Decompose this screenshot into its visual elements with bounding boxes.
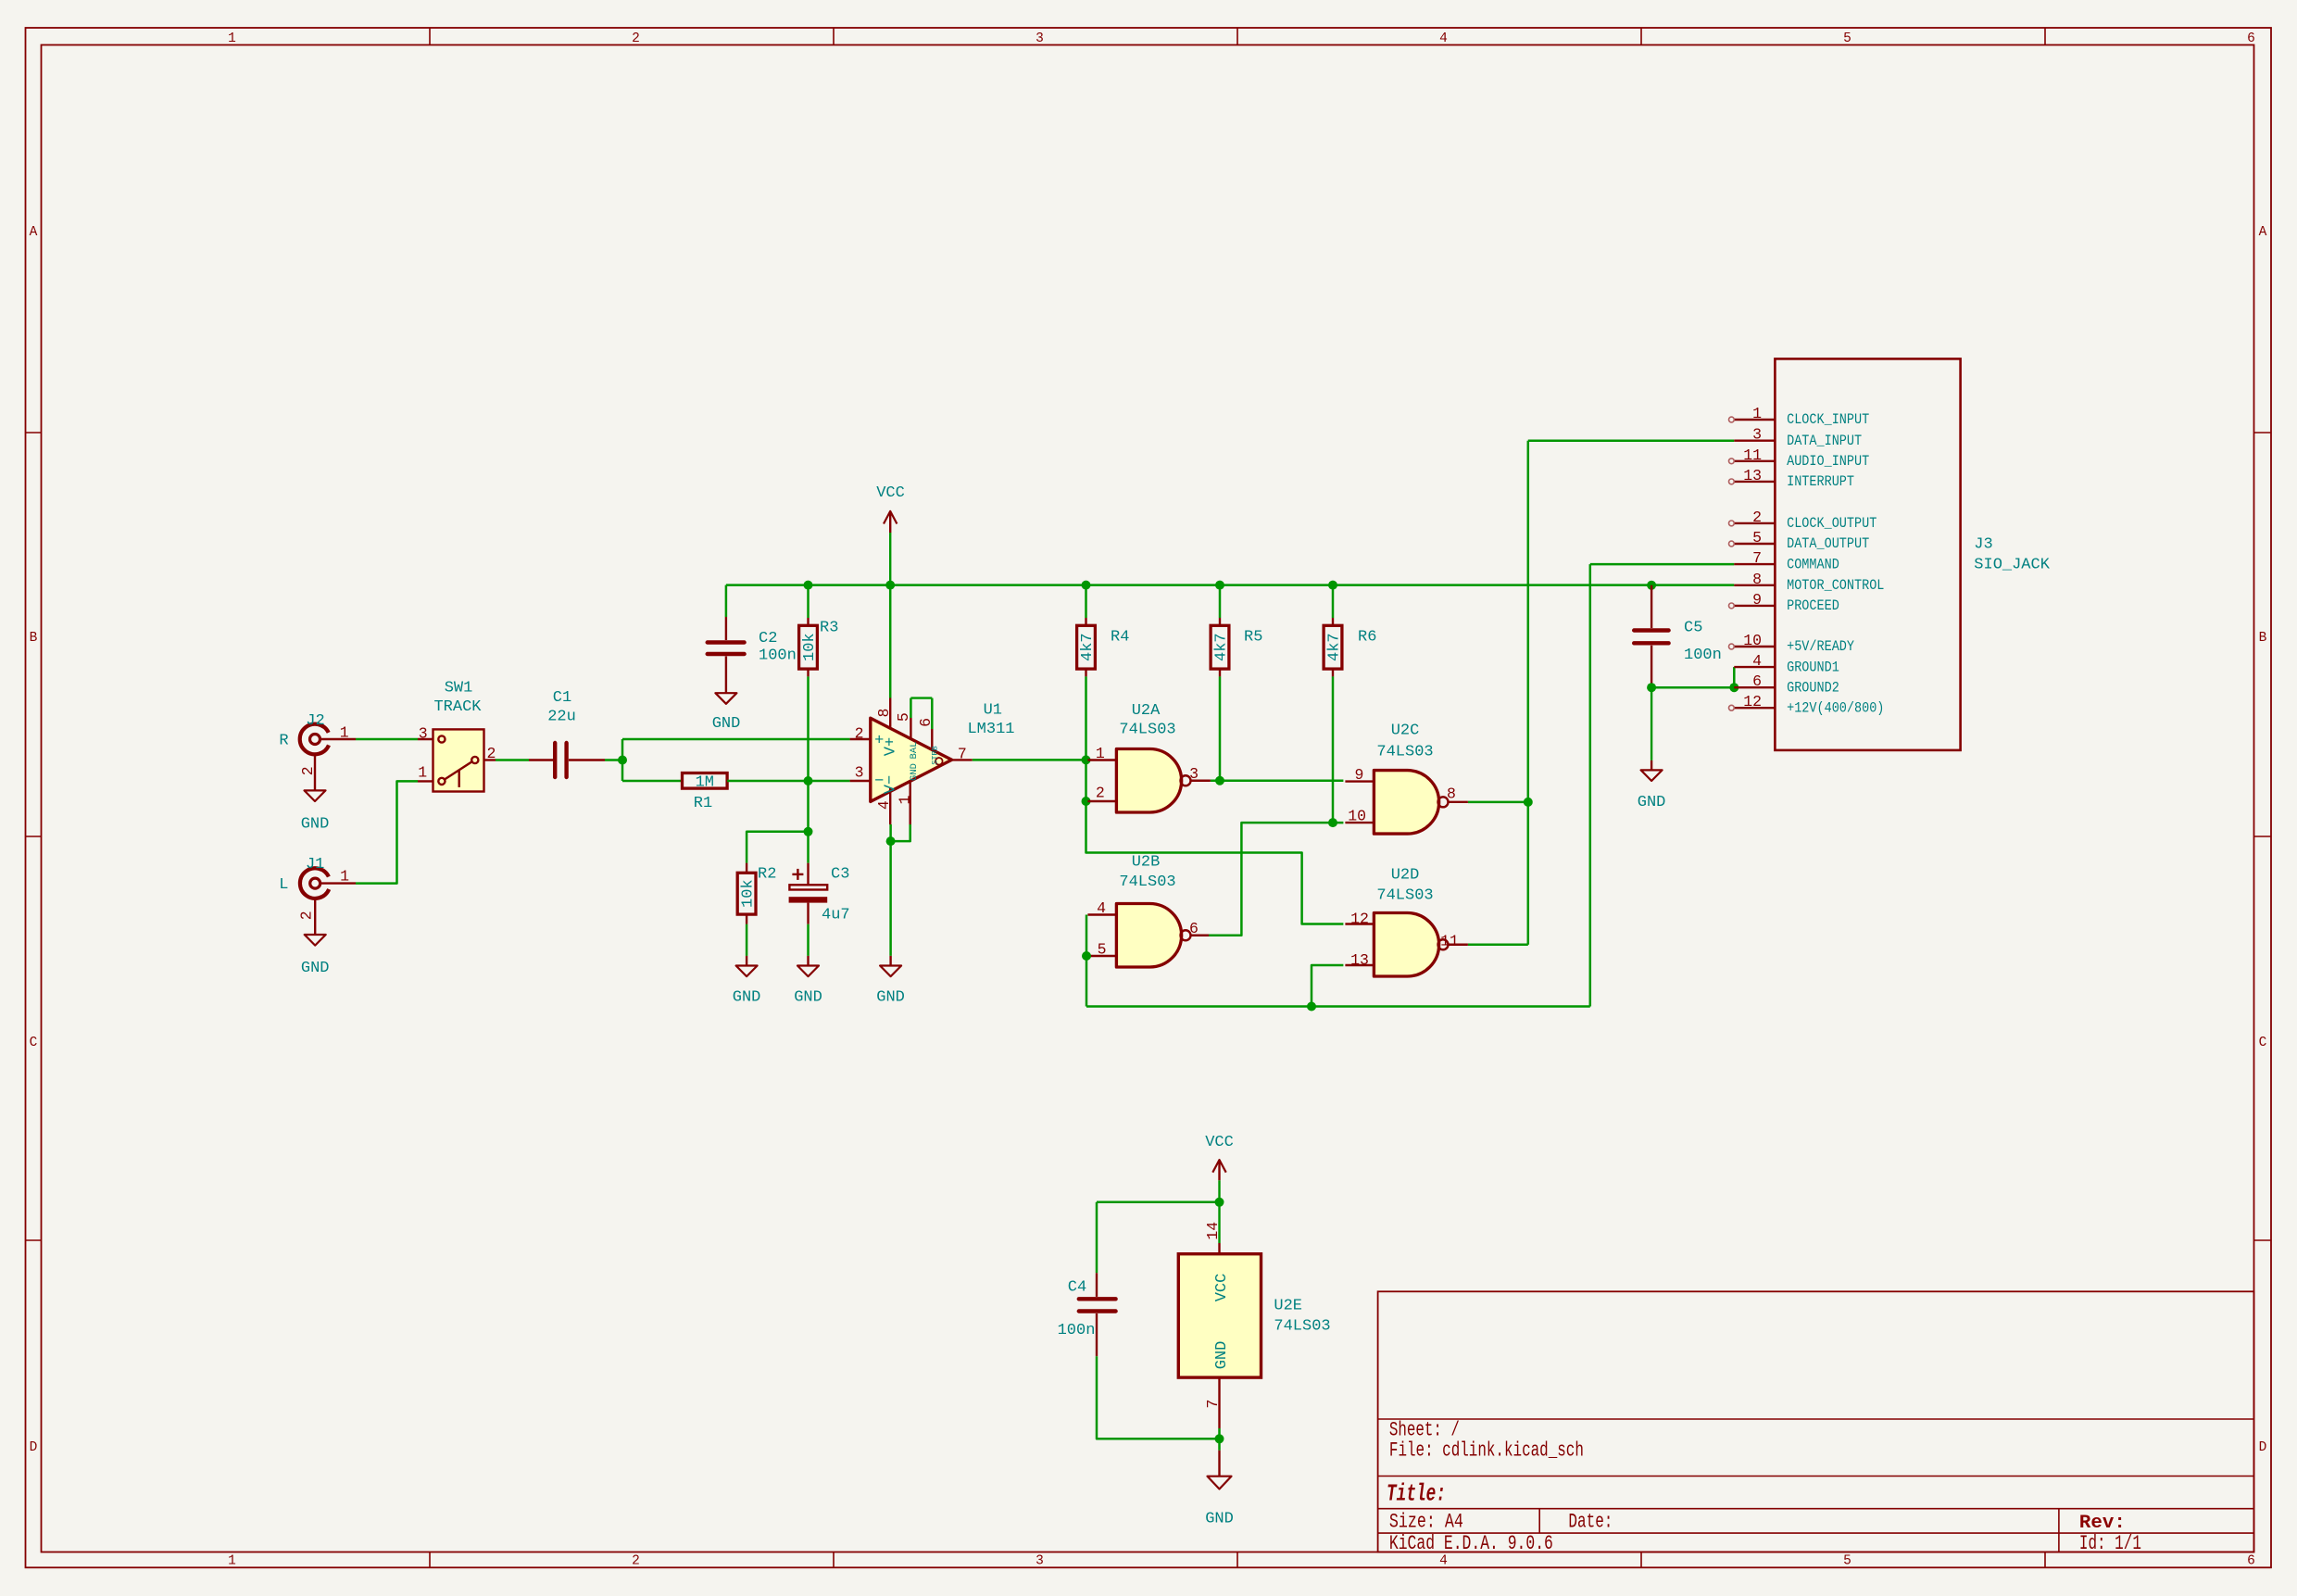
svg-text:6: 6 <box>2247 31 2255 46</box>
title block <box>1378 1291 2254 1555</box>
svg-text:R: R <box>279 733 288 750</box>
svg-text:1: 1 <box>228 31 236 46</box>
switch SW1 TRACK <box>418 680 496 792</box>
svg-text:GND: GND <box>876 989 905 1007</box>
svg-text:13: 13 <box>1743 467 1762 484</box>
wire C1 to node A <box>605 759 622 761</box>
svg-text:5: 5 <box>1098 941 1107 959</box>
svg-text:3: 3 <box>419 725 428 743</box>
svg-text:5: 5 <box>1843 31 1851 46</box>
svg-text:B: B <box>2259 631 2267 646</box>
svg-text:3: 3 <box>1036 31 1044 46</box>
power VCC (top) <box>876 484 905 585</box>
svg-text:PROCEED: PROCEED <box>1787 597 1839 614</box>
wire U2B.6 to U2C.10 <box>1209 823 1343 936</box>
junction VCC/rail <box>885 581 895 590</box>
svg-text:22u: 22u <box>547 709 576 726</box>
wire rail to R5 <box>1219 585 1222 618</box>
wire U2A.2 node to U2D.12 <box>1086 801 1344 924</box>
svg-text:DATA_INPUT: DATA_INPUT <box>1787 433 1862 449</box>
junction node C (U2C.8/U2D.11/DATA_INPUT) <box>1524 798 1533 807</box>
svg-text:R3: R3 <box>820 620 838 637</box>
resistor R3 10k <box>799 618 839 676</box>
svg-text:BAL: BAL <box>909 742 920 760</box>
svg-text:11: 11 <box>1743 446 1762 464</box>
svg-text:L: L <box>279 876 288 894</box>
svg-text:5: 5 <box>1843 1554 1851 1569</box>
capacitor C5 100n <box>1634 585 1722 687</box>
capacitor C4 100n <box>1058 1273 1116 1356</box>
J3 pin 1 CLOCK_INPUT <box>1729 405 1870 428</box>
wire J3 GROUND1 elbow <box>1733 667 1736 687</box>
svg-text:C3: C3 <box>831 866 849 884</box>
svg-text:4k7: 4k7 <box>1326 633 1344 661</box>
connector J1 (RCA jack L) <box>279 856 356 924</box>
J3 pin 10 +5V/READY <box>1729 632 1855 655</box>
svg-text:9: 9 <box>1355 766 1364 784</box>
J3 pin 2 CLOCK_OUTPUT <box>1729 509 1877 532</box>
svg-text:V−: V− <box>882 775 899 794</box>
svg-text:AUDIO_INPUT: AUDIO_INPUT <box>1787 453 1869 470</box>
svg-text:9: 9 <box>1752 591 1762 609</box>
wire node to C3 <box>807 832 810 863</box>
node A junction <box>618 756 627 765</box>
svg-text:8: 8 <box>875 709 893 718</box>
svg-text:Id: 1/1: Id: 1/1 <box>2079 1532 2141 1555</box>
op-amp U1 LM311 <box>850 698 1015 825</box>
junction C5/ground net <box>1647 683 1656 692</box>
junction C5/rail <box>1647 581 1656 590</box>
junction R5/rail <box>1215 581 1224 590</box>
svg-text:1: 1 <box>418 764 427 782</box>
junction R3/pin3 row <box>804 776 813 785</box>
junction J3 GROUND2 <box>1729 683 1738 692</box>
nand gate U2C 74LS03 <box>1345 723 1468 835</box>
junction R6/U2C.10 <box>1328 818 1337 827</box>
svg-text:1: 1 <box>228 1554 236 1569</box>
svg-text:74LS03: 74LS03 <box>1376 887 1433 905</box>
J3 pin 6 GROUND2 <box>1734 672 1839 696</box>
svg-text:100n: 100n <box>1684 647 1722 664</box>
svg-text:1: 1 <box>340 724 349 742</box>
wire C4 top lead <box>1096 1202 1098 1274</box>
wire node A to R1 <box>622 780 684 783</box>
ic U2E 74LS03 power unit <box>1178 1222 1330 1428</box>
power VCC (bottom) <box>1205 1134 1234 1202</box>
J3 pin 7 COMMAND <box>1734 549 1839 572</box>
resistor R2 10k <box>737 863 776 924</box>
svg-text:File: cdlink.kicad_sch: File: cdlink.kicad_sch <box>1389 1439 1584 1463</box>
J3 pin 11 AUDIO_INPUT <box>1729 446 1870 470</box>
J3 pin 4 GROUND1 <box>1734 652 1839 675</box>
svg-text:GND: GND <box>1213 1341 1231 1370</box>
svg-text:R5: R5 <box>1244 629 1262 647</box>
ground (J1) <box>301 924 330 977</box>
junction node B (U1.7/R4/U2A.1) <box>1082 755 1091 764</box>
svg-text:STRB: STRB <box>930 746 939 764</box>
wire node A vertical <box>621 739 624 781</box>
svg-text:74LS03: 74LS03 <box>1119 722 1175 739</box>
wire R1 to U1 pin 3 <box>727 780 850 783</box>
svg-text:Rev:: Rev: <box>2079 1513 2126 1534</box>
J3 pin 8 MOTOR_CONTROL <box>1734 571 1884 594</box>
svg-text:MOTOR_CONTROL: MOTOR_CONTROL <box>1787 577 1884 594</box>
svg-text:GND: GND <box>733 989 761 1007</box>
wire bottom rail (COMMAND net) <box>1086 1005 1590 1008</box>
wire R6 to U2C.10 node <box>1332 676 1335 823</box>
svg-text:CLOCK_INPUT: CLOCK_INPUT <box>1787 411 1869 428</box>
ground (C5) <box>1638 687 1666 811</box>
wire J2.1 to SW1.3 <box>356 738 418 741</box>
svg-text:Title:: Title: <box>1387 1480 1446 1508</box>
svg-text:COMMAND: COMMAND <box>1787 556 1839 572</box>
svg-text:C: C <box>30 1036 38 1050</box>
svg-text:Date:: Date: <box>1568 1511 1613 1534</box>
junction U1 ground node <box>886 836 896 846</box>
svg-text:GND: GND <box>1638 794 1666 811</box>
svg-text:10k: 10k <box>801 633 819 661</box>
svg-text:J3: J3 <box>1974 536 1992 554</box>
svg-text:3: 3 <box>1189 765 1199 783</box>
wire SW1.2 to C1 <box>496 759 529 761</box>
svg-text:B: B <box>30 631 38 646</box>
wire C4 bottom lead <box>1097 1356 1220 1439</box>
wire node to ground <box>1218 1439 1221 1450</box>
J3 pin 12 +12V(400/800) <box>1729 693 1885 716</box>
wire C3 to ground <box>807 924 810 956</box>
junction U2D.13/bottom rail <box>1307 1002 1316 1012</box>
svg-text:4: 4 <box>875 800 893 810</box>
svg-text:GND: GND <box>712 715 741 733</box>
svg-text:10k: 10k <box>740 879 758 908</box>
svg-text:DATA_OUTPUT: DATA_OUTPUT <box>1787 535 1869 552</box>
svg-text:U2D: U2D <box>1391 867 1420 885</box>
svg-text:4u7: 4u7 <box>822 907 850 924</box>
svg-text:TRACK: TRACK <box>433 698 482 716</box>
svg-text:2: 2 <box>855 724 864 742</box>
svg-text:7: 7 <box>958 745 967 762</box>
svg-text:GROUND2: GROUND2 <box>1787 679 1839 696</box>
wire COMMAND vertical <box>1589 564 1592 1006</box>
junction R4/rail <box>1082 581 1091 590</box>
svg-text:100n: 100n <box>1058 1322 1096 1339</box>
ground (J2) <box>301 779 330 834</box>
wire node A to U1 pin 2 <box>622 738 850 741</box>
resistor R4 4k7 <box>1077 618 1130 676</box>
wire node C to J3 DATA_INPUT <box>1528 439 1735 442</box>
svg-text:U2B: U2B <box>1132 854 1161 872</box>
svg-text:GND: GND <box>909 763 920 781</box>
svg-text:1: 1 <box>340 868 349 886</box>
nand gate U2D 74LS03 <box>1345 867 1468 977</box>
capacitor C2 100n <box>708 617 797 693</box>
svg-text:VCC: VCC <box>1205 1134 1234 1151</box>
svg-text:A: A <box>2259 225 2267 240</box>
resistor R1 1M <box>683 773 728 813</box>
wire node C vertical <box>1527 441 1530 945</box>
svg-text:2: 2 <box>487 745 496 762</box>
svg-text:4: 4 <box>1439 1554 1448 1569</box>
wire VCC rail <box>726 584 1734 586</box>
svg-text:C5: C5 <box>1684 620 1702 637</box>
svg-text:11: 11 <box>1440 933 1459 950</box>
svg-text:2: 2 <box>1096 785 1105 802</box>
svg-text:2: 2 <box>632 31 640 46</box>
svg-text:6: 6 <box>1752 672 1762 690</box>
wire U2A.3 node to U2C pin 9 <box>1220 780 1343 783</box>
wire U1 pins 5-6 loop <box>910 697 932 698</box>
connector J3 SIO_JACK <box>1775 358 2050 750</box>
svg-text:R6: R6 <box>1358 629 1376 647</box>
capacitor C3 4u7 (polarized) <box>789 863 850 924</box>
capacitor C1 22u <box>529 689 605 777</box>
svg-text:8: 8 <box>1447 785 1456 802</box>
svg-text:GND: GND <box>1205 1511 1234 1528</box>
svg-text:14: 14 <box>1204 1222 1222 1240</box>
wire R2 to ground <box>746 924 748 956</box>
svg-text:4k7: 4k7 <box>1213 633 1231 661</box>
connector J2 (RCA jack R) <box>279 712 356 779</box>
wire rail to R4 <box>1085 585 1087 618</box>
wire U2D.13 elbow <box>1312 965 1343 1007</box>
svg-text:Size: A4: Size: A4 <box>1389 1511 1463 1534</box>
ground (U2E) <box>1205 1451 1234 1528</box>
svg-text:8: 8 <box>1752 571 1762 588</box>
svg-text:GND: GND <box>301 816 330 834</box>
svg-text:1M: 1M <box>696 774 714 792</box>
svg-text:GND: GND <box>301 960 330 977</box>
svg-text:CLOCK_OUTPUT: CLOCK_OUTPUT <box>1787 515 1877 532</box>
J3 pin 5 DATA_OUTPUT <box>1729 529 1870 552</box>
svg-text:VCC: VCC <box>1213 1274 1231 1302</box>
svg-text:1: 1 <box>1752 405 1762 422</box>
svg-text:1: 1 <box>896 795 913 804</box>
svg-text:5: 5 <box>1752 529 1762 547</box>
svg-text:2: 2 <box>299 766 317 775</box>
svg-text:C1: C1 <box>553 689 571 707</box>
svg-text:KiCad E.D.A. 9.0.6: KiCad E.D.A. 9.0.6 <box>1389 1532 1553 1555</box>
svg-text:4k7: 4k7 <box>1079 633 1097 661</box>
svg-text:J1: J1 <box>306 856 324 873</box>
svg-text:J2: J2 <box>306 712 324 730</box>
ground (U1) <box>876 956 905 1007</box>
svg-text:10: 10 <box>1743 632 1762 649</box>
wire R3 to U1 pin 3 node <box>807 676 810 781</box>
svg-text:R2: R2 <box>758 866 776 884</box>
junction U2E pin 14 node <box>1215 1198 1224 1207</box>
svg-text:V+: V+ <box>882 737 899 756</box>
wire U2A.3 to R5 node <box>1211 780 1220 783</box>
svg-text:12: 12 <box>1743 693 1762 710</box>
svg-text:C4: C4 <box>1068 1279 1086 1297</box>
svg-text:U2A: U2A <box>1132 702 1161 720</box>
svg-text:2: 2 <box>298 911 316 920</box>
svg-text:VCC: VCC <box>876 484 905 502</box>
resistor R6 4k7 <box>1324 618 1376 676</box>
svg-text:R4: R4 <box>1111 629 1129 647</box>
wire J1.1 to SW1.1 <box>356 781 418 883</box>
J3 pin 9 PROCEED <box>1729 591 1839 614</box>
svg-text:7: 7 <box>1204 1400 1222 1409</box>
svg-text:U1: U1 <box>984 702 1002 720</box>
svg-text:74LS03: 74LS03 <box>1376 744 1433 761</box>
svg-text:GND: GND <box>794 989 822 1007</box>
svg-text:+12V(400/800): +12V(400/800) <box>1787 699 1884 716</box>
junction R3/rail <box>804 581 813 590</box>
wire rail to R3 <box>807 585 810 618</box>
junction U2A pin 2 <box>1082 797 1091 806</box>
svg-text:6: 6 <box>1189 920 1199 937</box>
wire node to R2 <box>747 832 808 863</box>
wire U2C.8 to node C <box>1468 801 1528 804</box>
ground (R2) <box>733 956 761 1007</box>
svg-text:100n: 100n <box>759 647 797 665</box>
junction R6/rail <box>1328 581 1337 590</box>
resistor R5 4k7 <box>1211 618 1262 676</box>
wire COMMAND to J3 pin 7 <box>1590 563 1735 566</box>
svg-text:3: 3 <box>1752 426 1762 444</box>
wire U1 pin 4 to ground node <box>889 824 892 956</box>
wire rail to R6 <box>1332 585 1335 618</box>
ground (C3) <box>794 956 822 1007</box>
svg-text:12: 12 <box>1350 911 1369 928</box>
svg-text:GROUND1: GROUND1 <box>1787 659 1839 675</box>
wire U2B.5 to bottom rail <box>1086 956 1088 1007</box>
wire C5 ground net to J3 grounds <box>1651 686 1734 689</box>
svg-text:74LS03: 74LS03 <box>1274 1318 1330 1336</box>
wire U2E pin 7 to node <box>1218 1428 1221 1439</box>
wire rail to U1 pin 8 <box>889 585 892 698</box>
junction U2B pin 5 <box>1082 951 1091 961</box>
wire pin3 node down to R2/C3 node <box>807 781 810 832</box>
wire U1 pin 7 to node B <box>973 759 1086 761</box>
svg-text:4: 4 <box>1439 31 1448 46</box>
svg-text:6: 6 <box>917 718 935 727</box>
junction R2/C3 node <box>804 827 813 836</box>
svg-text:5: 5 <box>895 712 912 722</box>
svg-text:SW1: SW1 <box>445 680 473 697</box>
svg-text:74LS03: 74LS03 <box>1119 873 1175 891</box>
svg-text:D: D <box>2259 1440 2267 1455</box>
svg-text:1: 1 <box>1096 745 1105 762</box>
svg-text:C: C <box>2259 1036 2267 1050</box>
svg-text:U2C: U2C <box>1391 723 1420 740</box>
J3 pin 3 DATA_INPUT <box>1734 426 1862 449</box>
svg-text:10: 10 <box>1348 808 1366 825</box>
wire U2E pin 14 <box>1218 1202 1220 1243</box>
nand gate U2A 74LS03 <box>1087 702 1211 812</box>
J3 pin 13 INTERRUPT <box>1729 467 1855 490</box>
junction U2A.3/R5 <box>1215 776 1224 785</box>
junction U2E pin 7 node <box>1215 1434 1224 1443</box>
svg-text:7: 7 <box>1752 549 1762 567</box>
svg-text:SIO_JACK: SIO_JACK <box>1974 557 2050 574</box>
wire R4 to node B <box>1085 676 1087 760</box>
svg-text:+5V/READY: +5V/READY <box>1787 638 1854 655</box>
svg-text:3: 3 <box>1036 1554 1044 1569</box>
svg-text:6: 6 <box>2247 1554 2255 1569</box>
svg-text:U2E: U2E <box>1274 1298 1302 1315</box>
wire U2D.11 to node C <box>1468 944 1528 947</box>
svg-text:2: 2 <box>632 1554 640 1569</box>
wire rail to C2 <box>725 585 728 617</box>
svg-text:13: 13 <box>1350 951 1369 969</box>
svg-text:C2: C2 <box>759 630 777 647</box>
svg-text:2: 2 <box>1752 509 1762 526</box>
wire node B down to U2A pin 2 <box>1085 760 1087 801</box>
svg-text:4: 4 <box>1752 652 1762 670</box>
svg-text:4: 4 <box>1097 899 1106 917</box>
svg-text:LM311: LM311 <box>967 721 1014 738</box>
svg-text:D: D <box>30 1440 38 1455</box>
svg-text:R1: R1 <box>694 795 712 812</box>
nand gate U2B 74LS03 <box>1087 854 1211 968</box>
svg-text:3: 3 <box>855 764 864 782</box>
wire U1 pin 1 loop <box>891 824 910 841</box>
wire U2B pin 4 elbow <box>1086 915 1088 957</box>
wire R5 to U2A.3 node <box>1219 676 1222 780</box>
wire VCC node to C4 <box>1097 1201 1220 1204</box>
ground (C2) <box>712 693 741 733</box>
svg-text:A: A <box>30 225 38 240</box>
svg-text:INTERRUPT: INTERRUPT <box>1787 473 1854 490</box>
